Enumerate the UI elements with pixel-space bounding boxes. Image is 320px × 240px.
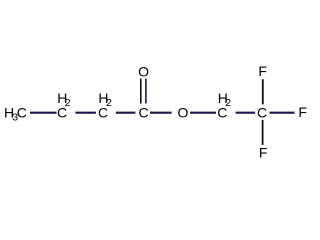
svg-text:C: C bbox=[17, 105, 27, 121]
wire bond C6-F(top) bbox=[262, 79, 264, 104]
label H2 on C5 bbox=[218, 90, 232, 109]
svg-text:2: 2 bbox=[106, 97, 112, 109]
svg-text:C: C bbox=[257, 105, 267, 121]
svg-text:2: 2 bbox=[225, 97, 231, 109]
svg-text:C: C bbox=[139, 105, 149, 121]
wire bond C5-C6 bbox=[236, 112, 256, 114]
wire bond C2-C3 bbox=[75, 112, 96, 114]
wire bond C4-O(ester) bbox=[150, 112, 172, 114]
wire double bond C4=O bbox=[141, 79, 146, 104]
wire bond H3C-C2 bbox=[30, 112, 57, 114]
label H2 on C3 bbox=[98, 90, 112, 109]
svg-text:F: F bbox=[259, 144, 268, 160]
wire bond O-C5 bbox=[190, 112, 216, 114]
wire bond C6-F(right) bbox=[270, 112, 295, 114]
svg-text:2: 2 bbox=[65, 97, 71, 109]
label H2 on C2 bbox=[57, 90, 70, 109]
svg-text:O: O bbox=[178, 105, 189, 121]
wire bond C3-C4 bbox=[116, 112, 136, 114]
wire bond C6-F(bottom) bbox=[262, 120, 264, 145]
atom H3C (methyl) bbox=[4, 105, 27, 124]
svg-text:F: F bbox=[258, 63, 267, 79]
svg-text:F: F bbox=[298, 104, 307, 120]
svg-text:O: O bbox=[138, 63, 149, 79]
